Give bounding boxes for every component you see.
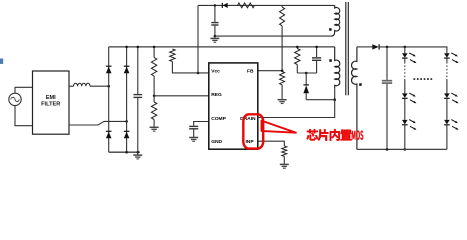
ground G3	[150, 126, 159, 128]
LED D13	[444, 120, 450, 125]
resistor R5	[280, 7, 285, 26]
wire column2 bottom	[446, 125, 448, 149]
wire primary ground rail	[109, 151, 140, 153]
transformer T1 primary winding	[335, 47, 340, 88]
wire DC+ rail	[109, 46, 335, 48]
wire aux top	[198, 4, 335, 6]
node clamp-diode	[305, 72, 308, 75]
node Vcc junction	[197, 72, 200, 75]
resistor R8 clamp	[296, 47, 298, 49]
svg-text:EMI: EMI	[46, 95, 56, 101]
LED D10	[402, 120, 408, 125]
resistor R3 startup	[170, 49, 175, 62]
svg-text:FB: FB	[247, 69, 254, 75]
svg-text:COMP: COMP	[211, 116, 226, 122]
wire bridge right leg	[126, 47, 128, 152]
ellipsis more strings	[414, 78, 416, 80]
transformer T1 secondary winding	[352, 47, 357, 149]
ground G4	[189, 137, 198, 139]
node rail-C5	[386, 46, 389, 49]
wire DRAIN	[258, 88, 335, 117]
EMI filter block	[33, 71, 70, 134]
ground G6	[280, 163, 289, 165]
wire AC bottom to EMI filter	[15, 106, 33, 126]
wire secondary to D7	[357, 46, 372, 48]
node rail-R1	[153, 46, 156, 49]
LED D8	[402, 53, 408, 58]
node gnd-LEDcol1	[404, 148, 407, 151]
node aux polarity dot	[329, 28, 332, 31]
annotation text chip built-in MOS	[307, 129, 352, 141]
node rail-C1	[137, 46, 140, 49]
svg-text:FILTER: FILTER	[41, 102, 60, 108]
wire aux return	[215, 35, 332, 37]
node primary polarity dot	[329, 59, 332, 62]
node gndrail-C1	[137, 151, 140, 154]
capacitor C3	[189, 125, 198, 127]
ground G1	[137, 152, 139, 155]
capacitor C5 output	[386, 47, 388, 80]
wire AC top to EMI filter	[15, 87, 33, 93]
svg-text:INP: INP	[245, 139, 254, 145]
wire LED column1 top	[404, 47, 406, 53]
node drain-clamp	[333, 98, 336, 101]
wire column1 bottom	[404, 125, 406, 149]
resistor R2	[151, 102, 156, 120]
resistor R6	[280, 72, 285, 85]
capacitor C1 bulk	[137, 47, 139, 94]
wire dotted column1	[404, 58, 406, 62]
ac source V1	[9, 93, 21, 105]
node rail-rightleg	[125, 46, 128, 49]
ground G2	[210, 37, 219, 39]
node auxgnd junction	[214, 35, 217, 38]
wire INP	[258, 141, 285, 146]
diode D5	[221, 3, 223, 8]
capacitor C2	[214, 5, 216, 22]
diode D2	[124, 65, 130, 67]
wire column2 mid	[446, 99, 448, 120]
callout circle around DRAIN/INP pins	[243, 114, 263, 148]
wire clamp to drain	[306, 99, 335, 101]
wire output return rail	[357, 148, 447, 150]
diode D4	[124, 130, 130, 132]
diode D1	[106, 65, 112, 67]
inductor L1	[69, 85, 74, 87]
wire bridge left leg	[108, 47, 110, 152]
svg-text:Vcc: Vcc	[211, 69, 220, 75]
callout wedge	[262, 121, 296, 133]
transformer T1 aux winding	[332, 5, 340, 36]
node bridge input2	[125, 120, 128, 123]
wire column1 mid	[404, 99, 406, 120]
svg-text:REG: REG	[211, 92, 222, 98]
wire clamp junction	[297, 72, 316, 74]
node aux-cap	[214, 4, 217, 7]
node secondary polarity dot	[359, 83, 362, 86]
ground G5	[278, 99, 287, 101]
node REG junction	[153, 95, 156, 98]
wire FB stub	[258, 70, 282, 72]
resistor R4	[238, 3, 255, 8]
wire REG	[154, 95, 209, 97]
node rail-C4	[315, 46, 318, 49]
diode D3	[106, 130, 112, 132]
wire COMP	[194, 122, 209, 126]
wire output rail	[379, 47, 447, 53]
diode D7 output	[372, 44, 378, 49]
wire aux to Vcc	[197, 5, 199, 73]
LED D11	[444, 53, 450, 58]
blue edge artifact	[0, 59, 3, 64]
capacitor C4 clamp	[316, 47, 318, 57]
wire dotted column2	[446, 58, 448, 62]
node gndrail-rightleg	[125, 151, 128, 154]
wire L1 to bridge	[90, 85, 109, 87]
node rail-LEDcol1	[404, 46, 407, 49]
svg-text:GND: GND	[211, 139, 222, 145]
LED D12	[444, 93, 450, 98]
node bridge input1	[107, 85, 110, 88]
diode D6 clamp	[305, 73, 307, 85]
node return-C5	[386, 148, 389, 151]
resistor R7	[282, 146, 287, 156]
node rail-R8	[296, 46, 299, 49]
LED D9	[402, 93, 408, 98]
wire EMI bottom to bridge	[69, 121, 127, 125]
resistor R1	[153, 47, 155, 58]
node FB junction	[281, 69, 284, 72]
transformer T1 core	[345, 2, 347, 95]
op-amp U1 controller IC	[209, 63, 258, 149]
